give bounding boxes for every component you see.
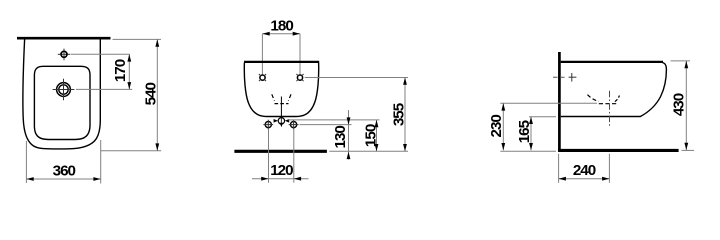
- dim 170 line: [128, 54, 130, 89]
- svg-text:360: 360: [53, 163, 76, 180]
- dim 240 extension left: [558, 154, 560, 183]
- wall line (thick): [558, 52, 561, 152]
- tap hole cross: [571, 73, 573, 82]
- dim 120 arrow right (outside): [294, 177, 301, 181]
- dim 130 arrow bottom (outside, pointing up): [347, 152, 351, 159]
- svg-text:180: 180: [270, 18, 293, 35]
- dim 180 arrow right: [293, 32, 300, 36]
- dim 180 extension right: [299, 34, 301, 75]
- floor line (thick): [234, 150, 327, 153]
- dim 165 arrow down: [529, 143, 533, 150]
- dim 360 arrow left: [26, 177, 33, 181]
- svg-text:230: 230: [488, 115, 505, 138]
- dim 540 arrow up: [155, 39, 159, 46]
- body top edge (thick): [561, 61, 663, 63]
- outlet symbol below bowl: [280, 118, 282, 125]
- dim 430 extension top: [671, 60, 690, 62]
- underside leader to 165 dim: [529, 116, 556, 118]
- bidet inner rim outline: [34, 66, 90, 139]
- dim 240 arrow right: [602, 177, 609, 181]
- dim 150 arrow down: [375, 144, 379, 151]
- dim 540 extension top: [113, 38, 162, 40]
- tap hole leader to 170 dim: [71, 53, 130, 55]
- drain hole (double circle): [57, 83, 71, 97]
- dim 170 arrow down: [127, 82, 131, 89]
- dim 240 extension right: [608, 154, 610, 183]
- drain centerline vertical: [280, 97, 282, 118]
- dim 150 line: [376, 120, 378, 151]
- dim 120 extension right: [293, 129, 295, 183]
- dim 540 line: [156, 39, 158, 150]
- dim 240 line: [559, 178, 610, 180]
- tap centerline dashes (left of wall): [553, 76, 567, 78]
- svg-text:430: 430: [671, 93, 688, 116]
- bolt hole left: [265, 122, 271, 128]
- dim 230 arrow down: [501, 143, 505, 150]
- dim 240 arrow left: [559, 177, 566, 181]
- dim 430 line: [685, 61, 687, 150]
- dim 360 arrow right: [93, 177, 100, 181]
- floor line (thick): [558, 149, 679, 152]
- bolt leader to 130 dim: [300, 124, 352, 126]
- mount hole right: [297, 75, 302, 80]
- floor extension right: [682, 149, 695, 151]
- svg-text:240: 240: [573, 162, 596, 179]
- dim 230 arrow up: [501, 103, 505, 110]
- svg-text:170: 170: [112, 59, 129, 82]
- dim 130 line: [348, 110, 350, 160]
- svg-text:355: 355: [390, 102, 407, 126]
- bolt hole right: [291, 122, 297, 128]
- svg-text:165: 165: [516, 119, 533, 143]
- svg-text:120: 120: [270, 162, 293, 179]
- dim 355 line: [404, 78, 406, 152]
- dim 120 line: [252, 178, 309, 180]
- dim 170 arrow up: [127, 54, 131, 61]
- drain leader to 170 dim: [76, 88, 132, 90]
- dim 360 line: [26, 178, 100, 180]
- floor extension to dims: [329, 150, 408, 152]
- bidet outer outline: [23, 40, 100, 149]
- outlet leader to 230 dim (through wall): [500, 102, 597, 104]
- mount hole left: [260, 75, 265, 80]
- tap hole: [58, 53, 71, 55]
- body outline (front curve + underside): [561, 62, 667, 117]
- dim 230 line: [502, 103, 504, 150]
- outlet centerline (dash-dot vertical): [609, 91, 611, 127]
- floor leader to left dims: [500, 150, 556, 152]
- dim 540 arrow down: [155, 143, 159, 150]
- dim 150 arrow up: [375, 120, 379, 127]
- dim 180 extension left: [261, 34, 263, 75]
- dim 355 arrow up: [403, 78, 407, 85]
- dim 360 extension left: [25, 141, 27, 183]
- svg-text:130: 130: [332, 126, 349, 149]
- mount holes leader to 355 dim: [305, 77, 408, 79]
- drain crosshair: [53, 89, 75, 91]
- dim 430 arrow up: [684, 61, 688, 68]
- body outline: [244, 63, 318, 117]
- svg-text:540: 540: [142, 82, 159, 105]
- dim 180 arrow left: [262, 32, 269, 36]
- svg-text:150: 150: [362, 124, 379, 147]
- hidden outlet trough (dashed): [588, 95, 599, 102]
- wall line (thick): [17, 37, 111, 40]
- dim 360 extension right: [100, 140, 102, 184]
- dim 165 line: [530, 117, 532, 151]
- hidden drain funnel (dashed): [272, 94, 275, 101]
- dim 120 arrow left (outside): [261, 177, 268, 181]
- dim 130 arrow top (outside, pointing down): [347, 117, 351, 124]
- dim 165 arrow up: [529, 117, 533, 124]
- dim 540 extension bottom: [101, 150, 161, 152]
- outlet leader to 150 dim: [289, 119, 380, 121]
- dim 355 arrow down: [403, 144, 407, 151]
- body top edge (thick): [244, 61, 319, 63]
- dim 180 line: [262, 33, 300, 35]
- dim 120 extension left: [268, 129, 270, 183]
- dim 430 arrow down: [684, 143, 688, 150]
